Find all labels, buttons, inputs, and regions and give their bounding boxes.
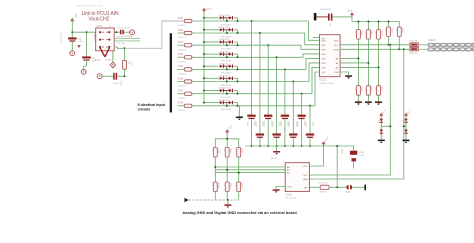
svg-text:1N4148WS: 1N4148WS [221,73,232,75]
svg-text:1k00/1%: 1k00/1% [178,110,187,112]
svg-text:10k: 10k [234,183,236,186]
wire drop to ADC pin 7 [312,67,320,93]
ground VSS [345,75,352,77]
resistor R131 [388,22,390,28]
wire A1 line [215,169,285,171]
svg-text:10k: 10k [354,31,356,34]
svg-text:2: 2 [102,39,103,41]
junction tap row 4 [226,56,228,58]
capacitor C108 [306,133,314,135]
wire WP pullup [336,146,338,187]
wire row 3 net [178,44,185,46]
diode D107a [220,89,223,92]
svg-text:R122: R122 [370,31,372,37]
pin pair [99,39,101,41]
capacitor C103 [264,115,272,117]
junction rail row 2 [203,29,205,31]
junction SDA R [398,48,400,50]
svg-text:10k: 10k [374,31,376,34]
wire addr top rail [215,139,238,148]
junction diode out row 7 [237,93,239,95]
resistor R9 [122,60,126,69]
wire diode feed row 4 [204,53,220,55]
ground prot [380,134,382,140]
wire addr mid 2 [226,157,228,182]
svg-text:10k: 10k [364,87,366,90]
svg-text:AGND: AGND [95,58,101,61]
svg-text:10k: 10k [354,87,356,90]
junction A0 col3 [378,66,380,68]
junction column row 6 [292,81,294,83]
op-amp IC1 ADC [320,35,341,77]
svg-text:+5VA: +5VA [74,13,77,19]
diode prot b [380,123,382,130]
junction tap row 1 [226,20,228,22]
svg-text:100nF: 100nF [279,121,281,127]
node black terminal [364,185,366,191]
svg-text:R103: R103 [178,42,184,44]
junction column row 4 [276,56,278,58]
svg-text:DGND: DGND [120,81,122,87]
svg-text:AGND: AGND [271,157,278,160]
svg-text:4k7/1%: 4k7/1% [320,192,327,194]
wire drop to ADC pin 6 [309,63,320,82]
svg-text:100nF: 100nF [271,122,273,128]
wire C4 to R9 [117,75,124,77]
wire +5VA to X101 [72,31,98,33]
svg-text:D107 D115: D107 D115 [219,88,231,90]
wire row 4 net [178,56,185,58]
capacitor C1 [71,32,73,37]
wire diode feed row 2 [204,29,220,31]
svg-text:8 identical input: 8 identical input [138,103,166,107]
svg-text:C108: C108 [312,122,314,128]
resistor R102 [184,31,192,34]
diode D104b [224,53,229,55]
wire SCL vertical [309,45,390,175]
capacitor C105 [281,115,289,117]
wire SJ6 out [353,186,365,188]
resistor R123 pullup [378,22,380,30]
svg-text:1: 1 [111,39,112,41]
capacitor C107 [297,115,305,117]
svg-text:100nF: 100nF [263,121,265,127]
wire diode tap row 7 [226,91,228,94]
svg-text:100nF: 100nF [304,122,306,128]
ground earth diamond [112,51,114,62]
svg-text:100uF: 100uF [359,155,366,157]
wire link stub 2 [114,40,140,42]
capacitor C2 [82,56,91,58]
junction branch 2 [86,31,88,33]
svg-text:D108 D116: D108 D116 [219,100,231,102]
diode D104a [220,52,223,55]
svg-text:10k: 10k [364,31,366,34]
diode prot a [404,119,407,122]
diode D102b [224,29,229,31]
wire column 3 mid [378,39,380,86]
capacitor C110 elco [353,146,355,151]
resistor R127 pulldown [377,86,381,96]
wire row 1 net [192,20,308,22]
junction SDA down [403,48,405,50]
svg-text:VCC: VCC [303,166,308,168]
resistor R104 [184,56,192,59]
resistor R132 [397,27,401,37]
wire drop to ADC pin 1 [308,21,319,40]
wire diode feed row 5 [204,65,220,67]
wire WP to jumper [329,186,346,188]
node +5V rail [203,13,205,103]
wire drop to ADC pin 5 [306,58,320,69]
node VDD bar [314,13,317,20]
svg-text:D101 D109: D101 D109 [219,15,231,17]
wire diode tap row 8 [226,103,228,106]
junction column row 8 [309,105,311,107]
junction tap row 6 [226,81,228,83]
ground DGND [227,200,229,204]
resistor R160 [320,185,329,189]
svg-text:1N4148WS: 1N4148WS [221,97,232,99]
wire A1 [340,62,368,64]
svg-text:1N4148WS: 1N4148WS [221,85,232,87]
node +5VA supply [71,20,73,32]
svg-text:R127: R127 [380,87,382,93]
wire VCC eeprom [309,146,323,166]
wire diode out row 5 [233,66,237,69]
wire row 6 net [178,81,185,83]
wire filter column 7 [301,94,303,115]
wire into R9 [124,48,126,60]
junction C4 R9 [124,75,126,77]
svg-text:R125: R125 [360,87,362,93]
svg-text:DGND: DGND [106,59,112,61]
svg-text:24LC04-SN: 24LC04-SN [285,198,297,200]
svg-text:100n: 100n [78,41,84,43]
svg-text:1k00/1%: 1k00/1% [178,62,187,64]
svg-text:R155: R155 [229,183,231,189]
junction WP rail [336,145,338,147]
wire E4 to C4 [102,75,113,77]
wire drop to ADC pin 8 [315,72,320,106]
wire VSS [340,72,349,75]
wire drop to ADC pin 3 [301,45,320,49]
resistor R105 [184,68,192,71]
wire diode out row 4 [233,54,237,57]
wire branch 2 [86,32,88,56]
capacitor C3 [120,30,122,35]
svg-text:R140 0R: R140 0R [410,41,419,43]
wire filter column 4 [276,57,278,133]
junction A2 [238,172,240,174]
svg-text:C4 4n7: C4 4n7 [112,83,120,85]
junction rail bottom col 6 [292,145,294,147]
wire diode tap row 6 [226,78,228,81]
junction addr rail 1 [226,138,228,140]
ground earth E3 [130,30,135,35]
diode D108b [224,102,229,104]
svg-text:R121: R121 [360,31,362,37]
wire filter column 2 [259,33,261,133]
svg-text:R156: R156 [241,183,243,189]
svg-text:R104: R104 [178,54,184,56]
wire diode tap row 5 [226,66,228,69]
wire diode feed row 7 [204,90,220,92]
wire addr mid 3 [238,157,240,182]
wire diode feed row 3 [204,41,220,43]
svg-text:R101: R101 [178,18,184,20]
svg-text:100nF: 100nF [296,121,298,127]
resistor R141 jumper [410,47,418,51]
resistor R121 pullup [357,22,359,30]
jumper SJ6 [346,185,348,190]
op-amp IC2 EEPROM [285,163,309,192]
wire VDD to +5V [332,16,352,18]
wire DGND bottom [188,199,239,201]
ground earth E1 [70,51,75,56]
svg-text:100nF/50V: 100nF/50V [60,33,62,44]
svg-text:VSS: VSS [287,187,292,189]
junction WP [336,186,338,188]
svg-text:IC101: IC101 [320,79,327,82]
svg-text:49R9: 49R9 [130,61,132,67]
svg-text:10k: 10k [374,87,376,90]
junction rail bottom col 8 [309,145,311,147]
svg-text:D103 D111: D103 D111 [219,39,231,41]
wire AGND rail [246,145,354,147]
wire column 1 mid [357,39,359,86]
wire addr bottom 1 [214,192,216,201]
diode D105a [220,65,223,68]
diode D107b [224,90,229,92]
wire A0 line [215,166,285,168]
wire diode feed row 1 [204,17,220,19]
node +5V prot [405,115,407,118]
svg-text:VSS: VSS [334,72,339,74]
svg-text:MA03-2: MA03-2 [93,34,96,42]
wire diode feed row 8 [204,102,220,104]
resistor R108 [184,104,192,107]
svg-text:R160 10k: R160 10k [319,183,329,185]
wire prot tap [381,125,390,127]
capacitor C106 [289,133,297,135]
svg-text:R108: R108 [178,103,184,105]
junction rail row 1 [203,17,205,19]
resistor R140 jumper [410,43,418,47]
resistor R103 [184,44,192,47]
junction column row 2 [259,32,261,34]
junction diode out row 8 [237,105,239,107]
svg-text:R152: R152 [229,148,231,154]
resistor R107 [184,92,192,95]
wire VDD red [316,16,328,18]
wire SET pin stub [313,37,320,39]
resistor R151 [213,148,217,158]
ground column 3 [378,95,380,101]
svg-text:R107: R107 [178,91,184,93]
svg-text:10k: 10k [395,28,397,31]
svg-text:C110: C110 [359,152,365,154]
wire SDA [340,48,410,50]
red V wire left [100,48,105,57]
svg-text:1k00/1%: 1k00/1% [178,74,187,76]
capacitor C101 [247,115,255,117]
resistor R126 pulldown [366,86,370,96]
wire diode out row 1 [233,18,237,21]
svg-text:R106: R106 [178,78,184,80]
junction column row 7 [301,93,303,95]
svg-text:10k: 10k [211,148,213,151]
svg-text:10k: 10k [234,148,236,151]
diode D106a [220,77,223,80]
wire diode out row 7 [233,91,237,94]
resistor R155 [225,182,229,192]
ground column 1 [357,95,359,101]
wire X101 pin2 right [114,31,119,33]
svg-text:100nF: 100nF [246,121,248,127]
junction pin2 [115,31,117,33]
junction rail row 7 [203,90,205,92]
svg-text:1k00/1%: 1k00/1% [178,25,187,27]
junction tap row 8 [226,105,228,107]
junction A0 [214,166,216,168]
wire diode tap row 4 [226,54,228,57]
junction A2 col1 [357,57,359,59]
resistor R153 [237,148,241,158]
resistor R125 pulldown [356,86,360,96]
svg-text:VDD: VDD [340,149,342,154]
diode prot a [380,119,383,122]
junction diode out row 6 [237,81,239,83]
ground earth E2 [81,70,86,75]
capacitor C109 [328,14,330,21]
node off-page arrow [185,198,189,203]
diode D106b [224,77,229,79]
junction rail row 6 [203,77,205,79]
svg-text:circuits: circuits [138,108,151,112]
diode D101a [220,16,223,19]
wire filter column 8 [309,106,311,134]
resistor R101 [184,19,192,22]
junction rail bottom col 7 [301,145,303,147]
junction prot [403,125,405,127]
wire WP [309,186,319,188]
wire filter column 5 [284,69,286,114]
wire SCL [340,44,410,46]
diode D108a [220,101,223,104]
junction +5VA C [71,31,73,33]
junction diode out row 2 [237,32,239,34]
svg-text:2: 2 [102,31,103,33]
svg-text:IC102: IC102 [285,193,292,196]
svg-text:Analog GND and Digital GND con: Analog GND and Digital GND connected via… [182,211,297,215]
svg-text:+5 V: +5 V [206,7,212,11]
ground EEPROM VSS [276,187,285,190]
junction diode out row 4 [237,56,239,58]
junction rail bottom col 5 [284,145,286,147]
svg-text:R141 0R: R141 0R [410,53,419,55]
svg-text:R123: R123 [380,31,382,37]
svg-text:MAX11617EEE: MAX11617EEE [320,82,336,85]
diode D103a [220,40,223,43]
svg-text:2: 2 [102,46,103,48]
svg-text:1k00/1%: 1k00/1% [178,98,187,100]
svg-text:R153: R153 [241,148,243,154]
junction rail bottom col 4 [276,145,278,147]
svg-text:WP: WP [304,187,308,189]
svg-text:1N4148WS: 1N4148WS [221,49,232,51]
svg-text:1: 1 [111,46,112,48]
wire A2 [340,57,358,59]
wire diode feed row 6 [204,77,220,79]
wire drop to ADC pin 2 [305,33,320,45]
junction diode out row 1 [237,20,239,22]
node +5V adc [351,14,353,17]
junction tap row 7 [226,93,228,95]
node replication bar [170,33,172,112]
pin pair [99,46,101,48]
junction DGND [227,199,229,201]
wire drop to ADC pin 4 [303,54,320,57]
wire X101 pin6 down [114,47,125,48]
svg-text:1k00/1%: 1k00/1% [178,49,187,51]
diode prot b [405,123,407,130]
wire filter column 1 [251,21,253,115]
wire diode tap row 1 [226,18,228,21]
junction SCL R [388,44,390,46]
svg-text:Link-to-PCU1-AIN: Link-to-PCU1-AIN [117,35,134,38]
svg-text:R132: R132 [401,28,403,34]
junction A1 col2 [367,62,369,64]
junction column row 1 [251,20,253,22]
svg-text:Vout-CH2: Vout-CH2 [117,42,127,45]
svg-text:R154: R154 [217,183,219,189]
junction rail row 8 [203,102,205,104]
wire +5V pullup rail [352,17,399,27]
wire addr bottom 2 [226,192,228,201]
svg-text:1N4148WS: 1N4148WS [221,36,232,38]
wire Vout-CH2 stub [114,37,140,39]
capacitor C102 [256,133,264,135]
ground prot [405,134,407,140]
junction diode out row 5 [237,68,239,70]
wire diode out row 3 [233,42,237,45]
svg-text:D104 D112: D104 D112 [219,51,231,53]
svg-text:SDA: SDA [334,48,339,51]
junction column row 5 [284,68,286,70]
wire row 8 net [178,105,185,107]
resistor R106 [184,80,192,83]
svg-text:R126: R126 [370,87,372,93]
junction A1 [226,169,228,171]
junction column row 3 [267,44,269,46]
svg-text:1: 1 [111,31,112,33]
svg-text:1N4148WS: 1N4148WS [221,61,232,63]
junction rail bottom col 3 [267,145,269,147]
capacitor C4 [113,73,115,80]
svg-text:D102 D110: D102 D110 [219,27,231,29]
svg-text:X101: X101 [96,24,103,28]
wire diode tap row 3 [226,42,228,45]
svg-text:R151: R151 [217,148,219,154]
junction tap row 5 [226,68,228,70]
wire grey to row1 [125,21,184,48]
junction rail row 4 [203,53,205,55]
wire A0 [340,66,378,68]
ground DGND row8 [238,106,240,117]
wire filter column 6 [292,82,294,134]
svg-text:VDD: VDD [334,40,339,42]
